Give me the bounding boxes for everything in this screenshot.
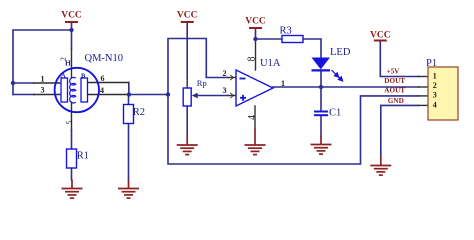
svg-text:4: 4 xyxy=(100,86,104,95)
svg-text:LED: LED xyxy=(330,47,351,58)
svg-text:A: A xyxy=(61,72,66,79)
svg-text:1: 1 xyxy=(41,75,45,84)
svg-text:VCC: VCC xyxy=(61,10,82,20)
svg-text:2: 2 xyxy=(223,69,227,78)
svg-text:U1A: U1A xyxy=(260,58,281,69)
svg-text:Rp: Rp xyxy=(197,78,207,88)
svg-text:+5V: +5V xyxy=(387,67,401,75)
svg-text:DOUT: DOUT xyxy=(384,77,405,85)
svg-text:QM-N10: QM-N10 xyxy=(85,53,124,64)
svg-text:6: 6 xyxy=(101,74,105,83)
svg-text:C1: C1 xyxy=(329,108,341,119)
svg-text:R2: R2 xyxy=(133,107,145,118)
svg-text:R3: R3 xyxy=(280,25,292,36)
svg-text:VCC: VCC xyxy=(370,31,391,41)
svg-text:3: 3 xyxy=(433,91,437,100)
svg-text:VCC: VCC xyxy=(177,10,198,20)
svg-text:5: 5 xyxy=(65,121,74,125)
svg-text:AOUT: AOUT xyxy=(384,87,405,95)
svg-text:VCC: VCC xyxy=(245,16,266,26)
svg-text:R1: R1 xyxy=(77,151,89,162)
svg-text:4: 4 xyxy=(247,115,258,120)
svg-text:B: B xyxy=(81,72,86,79)
svg-text:3: 3 xyxy=(223,86,227,95)
svg-text:2: 2 xyxy=(59,57,68,61)
svg-text:2: 2 xyxy=(433,81,437,90)
svg-text:1: 1 xyxy=(281,79,285,88)
svg-text:8: 8 xyxy=(247,57,258,62)
svg-text:3: 3 xyxy=(41,86,45,95)
svg-text:1: 1 xyxy=(433,71,437,80)
svg-text:GND: GND xyxy=(388,97,404,105)
svg-text:4: 4 xyxy=(433,100,437,109)
svg-text:P1: P1 xyxy=(426,58,437,69)
